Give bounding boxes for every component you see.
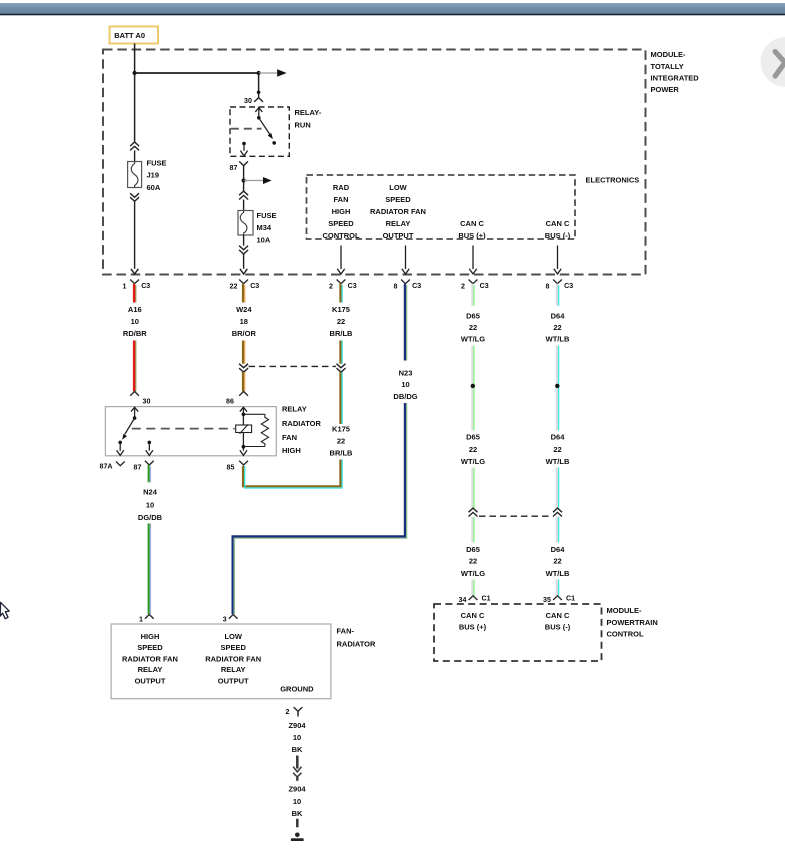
svg-text:FUSE: FUSE [257,211,277,220]
label D64 22 WT/LB third [546,545,570,578]
wire Z904 BK with splice arrow [293,756,301,772]
svg-text:FAN-: FAN- [337,627,355,636]
pin 1 connector C3 [123,280,151,291]
svg-text:18: 18 [240,317,248,326]
svg-text:10A: 10A [257,235,271,244]
svg-text:SPEED: SPEED [137,643,163,652]
svg-text:RADIATOR: RADIATOR [337,639,376,648]
label D65 22 WT/LG first [461,311,485,343]
svg-text:D65: D65 [466,545,480,554]
wire K175 BR/LB upper [340,284,342,303]
toolbar top bar [0,3,785,15]
svg-text:10: 10 [293,733,301,742]
wire K175 BR/LB below splice [340,372,342,424]
fan-radiator box [111,624,376,699]
wire D64 WT/LB segment 1 [557,284,559,306]
svg-text:C3: C3 [412,282,421,290]
pin 3 fan-radiator [223,615,238,624]
svg-text:CAN C: CAN C [546,219,570,228]
powertrain label can c bus minus [545,611,571,632]
wire N23 DB/DG to fan-radiator pin 3 [233,403,407,614]
pin 30 relay radiator [130,392,150,406]
svg-text:POWER: POWER [651,85,680,94]
wire A16 RD/BR lower [134,341,136,392]
connector pair on D65 [469,508,478,516]
svg-text:SPEED: SPEED [385,195,411,204]
svg-text:2: 2 [329,282,333,290]
svg-text:87: 87 [134,464,142,472]
svg-text:CONTROL: CONTROL [607,629,644,638]
svg-text:RELAY: RELAY [282,405,307,414]
svg-text:C3: C3 [141,282,150,290]
svg-text:CAN C: CAN C [460,219,484,228]
electronics dashed box [307,175,640,239]
svg-text:RELAY: RELAY [221,665,246,674]
svg-text:35: 35 [543,596,551,604]
svg-text:DG/DB: DG/DB [138,513,163,522]
svg-text:GROUND: GROUND [280,685,314,694]
svg-text:BUS (+): BUS (+) [458,231,486,240]
pin 2 connector C3 [329,280,357,291]
label Z904 10 BK first [288,721,306,754]
pin 87 relay radiator [134,461,154,472]
pin 86 relay radiator [226,392,248,406]
relay radiator coil [236,407,269,455]
junction dot on D64 [555,384,559,388]
svg-text:MODULE-: MODULE- [607,606,642,615]
label D65 22 WT/LG second [461,432,485,466]
svg-text:BK: BK [292,745,303,754]
electronics labels col can c bus minus [545,219,571,240]
svg-text:C3: C3 [250,282,259,290]
svg-text:CONTROL: CONTROL [322,231,359,240]
svg-text:SPEED: SPEED [328,219,354,228]
wire D65 WT/LG segment 1 [472,284,474,306]
svg-text:C3: C3 [564,282,573,290]
svg-text:RUN: RUN [295,121,311,130]
pin 8 connector C3 [394,280,422,291]
svg-text:A16: A16 [128,305,142,314]
pin 87 relay-run [230,161,249,180]
svg-text:RADIATOR FAN: RADIATOR FAN [122,654,178,663]
arrow can c bus minus [554,246,561,275]
svg-text:8: 8 [394,282,398,290]
svg-text:OUTPUT: OUTPUT [135,677,166,686]
svg-text:RELAY: RELAY [386,219,411,228]
relay RADIATOR FAN HIGH box [105,405,321,456]
wire continuation to off-page arrow [259,69,287,77]
svg-text:D64: D64 [551,545,566,554]
wire N23 DB/DG upper [405,284,407,361]
svg-text:J19: J19 [147,171,160,180]
svg-text:BUS (-): BUS (-) [545,622,571,631]
svg-text:22: 22 [553,445,561,454]
svg-text:87A: 87A [100,463,113,471]
wire D65 WT/LG segment 4 [472,517,474,543]
splice connector pair on K175 [337,364,346,373]
svg-text:C1: C1 [482,595,491,603]
svg-text:RELAY: RELAY [138,665,163,674]
splice connector pair on W24 [239,364,248,373]
relay RUN switch [255,108,276,145]
svg-text:22: 22 [469,557,477,566]
svg-text:22: 22 [553,557,561,566]
label D64 22 WT/LB second [546,432,570,466]
svg-text:M34: M34 [257,223,272,232]
relay radiator pin 87 contact [146,441,153,456]
svg-text:RADIATOR FAN: RADIATOR FAN [370,207,426,216]
pin 8 connector C3 can c minus [546,280,574,291]
pin 35 connector C1 [543,595,575,604]
wire N24 DG/DB to fan-radiator pin 1 [149,524,151,615]
wire D64 WT/LB segment 2 [557,346,559,431]
electronics labels col rad fan high speed control [322,183,359,240]
svg-text:22: 22 [337,436,345,445]
svg-text:D64: D64 [551,311,566,320]
junction dot above relay-run pin 30 [257,91,261,95]
module TIPM name [651,50,700,94]
svg-text:D65: D65 [466,311,480,320]
svg-text:RADIATOR FAN: RADIATOR FAN [205,654,261,663]
label N24 10 DG/DB [138,488,163,522]
svg-text:FUSE: FUSE [147,159,167,168]
svg-text:2: 2 [461,282,465,290]
svg-text:BUS (-): BUS (-) [545,231,571,240]
pin 34 connector C1 [459,595,491,604]
wire K175 BR/LB to relay pin 85 [243,460,342,489]
svg-text:87: 87 [230,164,238,172]
svg-text:FAN: FAN [282,433,297,442]
svg-text:POWERTRAIN: POWERTRAIN [607,618,658,627]
fuse J19 [128,159,167,193]
electronics labels col low speed radiator fan relay output [370,183,426,240]
svg-text:N23: N23 [399,368,413,377]
nav circle button top right [761,37,785,87]
svg-text:CAN C: CAN C [461,611,485,620]
powertrain label can c bus plus [459,611,487,632]
svg-text:BR/OR: BR/OR [232,329,257,338]
svg-text:D64: D64 [551,432,566,441]
svg-text:RD/BR: RD/BR [123,329,147,338]
svg-text:8: 8 [546,282,550,290]
wire W24 BR/OR to relay pin 86 [243,372,245,391]
wire W24 BR/OR upper [243,284,245,303]
wire relay-run branch down [258,73,260,92]
svg-text:C3: C3 [348,282,357,290]
dashed link D65 to D64 [479,515,552,517]
junction dot on D65 [471,384,475,388]
module powertrain control dashed box [434,604,658,661]
splice connector Z904 [293,773,301,781]
svg-text:22: 22 [230,282,238,290]
svg-text:22: 22 [469,323,477,332]
arrow low speed radiator fan relay output [402,246,409,275]
wire fuse M34 to module edge [240,254,247,274]
pin 1 fan-radiator [139,615,154,624]
connector pair above fuse M34 [239,181,248,211]
svg-text:1: 1 [139,615,143,623]
pin 87A relay radiator [100,462,125,471]
label A16 10 RD/BR [123,305,147,338]
label K175 22 BR/LB [330,305,353,338]
wire Z904 BK ground stub [296,819,299,828]
svg-text:K175: K175 [332,305,350,314]
svg-text:BUS (+): BUS (+) [459,622,487,631]
connector pair above fuse J19 [130,142,139,162]
pin 2 fan-radiator ground [286,707,303,716]
svg-text:WT/LG: WT/LG [461,569,485,578]
label D64 22 WT/LB first [546,311,570,343]
fan-radiator label high speed output [122,632,178,686]
module TIPM dashed box [103,50,646,275]
svg-text:HIGH: HIGH [332,207,351,216]
relay radiator switch [117,407,139,455]
svg-text:OUTPUT: OUTPUT [383,231,414,240]
svg-text:D65: D65 [466,432,480,441]
pin 30 relay-run connector [244,92,263,105]
label Z904 10 BK second [288,785,306,818]
svg-text:C3: C3 [480,282,489,290]
svg-text:BK: BK [292,809,303,818]
svg-text:WT/LB: WT/LB [546,569,570,578]
wire to fuse J19 [134,73,136,142]
relay RUN output contact [240,142,247,156]
relay radiator internal dashed link [132,428,235,430]
mouse cursor [0,602,9,618]
connector pair below fuse J19 [130,193,139,201]
svg-text:LOW: LOW [389,183,407,192]
wire A16 RD/BR upper [134,284,136,303]
svg-text:INTEGRATED: INTEGRATED [651,74,700,83]
svg-text:LOW: LOW [224,632,242,641]
svg-text:3: 3 [223,615,227,623]
svg-text:N24: N24 [143,488,158,497]
svg-text:WT/LB: WT/LB [546,334,570,343]
svg-text:CAN C: CAN C [546,611,570,620]
wire battery feed vertical [134,44,136,74]
junction dot at relay-run branch [257,71,261,75]
svg-text:WT/LG: WT/LG [461,457,485,466]
svg-text:30: 30 [143,398,151,406]
svg-text:WT/LG: WT/LG [461,334,485,343]
svg-text:10: 10 [293,797,301,806]
svg-text:BATT A0: BATT A0 [114,31,145,40]
ground [291,833,304,842]
svg-text:22: 22 [469,445,477,454]
relay RUN internal dashed link [231,128,262,130]
arrow rad fan high speed control output [337,246,344,275]
svg-text:K175: K175 [332,425,350,434]
svg-text:RAD: RAD [333,183,350,192]
node BATT A0 [110,27,159,44]
svg-text:34: 34 [459,596,467,604]
pin 22 connector C3 [230,280,260,291]
junction dot with off-page arrow [242,177,272,184]
svg-text:HIGH: HIGH [141,632,160,641]
svg-text:22: 22 [553,323,561,332]
svg-text:60A: 60A [147,183,161,192]
svg-text:WT/LB: WT/LB [546,457,570,466]
svg-text:FAN: FAN [334,195,349,204]
label K175 22 BR/LB second [330,425,353,458]
wire battery bus horizontal [135,72,259,74]
arrow can c bus plus [469,246,476,275]
electronics labels col can c bus plus [458,219,486,240]
svg-text:OUTPUT: OUTPUT [218,677,249,686]
label W24 18 BR/OR [232,305,257,338]
wire K175 BR/LB middle [340,341,342,364]
wire fuse J19 to module edge [131,201,138,274]
wire D64 WT/LB segment 3 [557,468,559,509]
pin 85 relay radiator [227,461,249,472]
fuse M34 [238,211,277,245]
label N23 10 DB/DG [393,368,417,401]
svg-text:W24: W24 [236,305,252,314]
svg-text:DB/DG: DB/DG [393,392,417,401]
svg-text:MODULE-: MODULE- [651,50,686,59]
svg-text:30: 30 [244,97,252,105]
junction dot on battery feed [133,71,137,75]
wire D65 WT/LG segment 2 [472,346,474,431]
svg-text:10: 10 [401,380,409,389]
wire D64 WT/LB segment 5 [557,580,559,596]
label D65 22 WT/LG third [461,545,485,578]
connector pair below fuse M34 [239,235,248,254]
svg-text:RADIATOR: RADIATOR [282,419,321,428]
svg-text:RELAY-: RELAY- [295,108,322,117]
wire D65 WT/LG segment 3 [472,468,474,509]
wire D64 WT/LB segment 4 [557,517,559,543]
svg-text:10: 10 [131,317,139,326]
svg-text:TOTALLY: TOTALLY [651,62,684,71]
svg-text:BR/LB: BR/LB [330,329,353,338]
svg-text:Z904: Z904 [288,785,306,794]
svg-text:10: 10 [146,501,154,510]
pin 2 connector C3 can c plus [461,280,489,291]
svg-text:C1: C1 [566,595,575,603]
svg-text:ELECTRONICS: ELECTRONICS [586,176,640,185]
wire W24 BR/OR lower [243,341,245,364]
svg-text:HIGH: HIGH [282,446,301,455]
wire N24 DG/DB upper [149,465,151,482]
connector pair on D64 [553,508,562,516]
relay RUN dashed box [230,107,322,156]
svg-text:SPEED: SPEED [220,643,246,652]
svg-text:22: 22 [337,317,345,326]
svg-text:Z904: Z904 [288,721,306,730]
dashed link W24 to K175 [249,365,337,367]
svg-text:1: 1 [123,282,127,290]
svg-text:2: 2 [286,708,290,716]
wire D65 WT/LG segment 5 [472,580,474,596]
svg-text:BR/LB: BR/LB [330,448,353,457]
svg-text:86: 86 [226,398,234,406]
svg-text:85: 85 [227,464,235,472]
fan-radiator label low speed output [205,632,261,686]
